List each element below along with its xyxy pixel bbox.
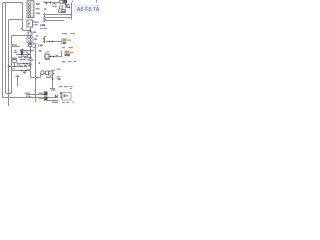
connector J1 inner contact xyxy=(28,23,30,25)
wire tick to C3 xyxy=(54,3,56,5)
resistor R1 top cluster xyxy=(60,1,63,4)
wire branch y30 xyxy=(23,30,31,32)
capacitor C1 top cluster xyxy=(66,4,70,7)
wire main vertical through components xyxy=(30,28,32,78)
wire rail y41 xyxy=(46,41,62,43)
wire row y73 xyxy=(41,73,55,75)
inductor L1 left box xyxy=(12,58,17,63)
wire bus rail y20 xyxy=(45,20,65,22)
capacitor C3 small box xyxy=(53,4,56,7)
wire y46 xyxy=(12,46,21,48)
wire vertical x35 to bottom xyxy=(35,45,37,103)
module M1 contact 1 xyxy=(64,95,66,97)
wire y50 xyxy=(20,50,34,52)
connector J2 small xyxy=(43,36,46,43)
regulator U2 body xyxy=(45,54,49,59)
wire rail y56 xyxy=(44,56,62,58)
wire bus rail y17 xyxy=(45,17,72,19)
connector J1 pin ticks xyxy=(33,22,35,26)
resistor row RN3 xyxy=(49,71,53,75)
module M1 outline bottom right xyxy=(62,93,71,101)
transistor Q1 cluster box xyxy=(23,52,28,57)
diode D1 dark body xyxy=(44,92,48,96)
capacitor C4 bars xyxy=(56,95,58,99)
resistor row RN2 xyxy=(46,71,49,75)
text blobs: labels xyxy=(12,0,97,103)
wire y54 xyxy=(16,54,29,56)
junction dots xyxy=(8,2,55,72)
wire y63 xyxy=(17,63,31,65)
wire vertical x52 xyxy=(52,75,54,89)
component X2 blue body xyxy=(65,54,71,57)
wire y70 xyxy=(12,70,31,72)
blue net label flags xyxy=(29,24,45,97)
wire ground tick x52 xyxy=(50,88,55,90)
resistor R4 on main vertical xyxy=(29,44,32,47)
junction dot cluster xyxy=(69,7,71,9)
wire pin bar comp1 xyxy=(61,38,63,45)
wire bus rail y14 xyxy=(45,14,72,16)
wire vertical from top net down xyxy=(22,3,24,31)
diode D1 anode dot xyxy=(43,93,44,95)
red junction dots xyxy=(20,53,53,80)
IC U1 body xyxy=(27,1,34,18)
wire from box B3 down xyxy=(14,63,16,67)
capacitor C2 top cluster xyxy=(60,6,63,9)
component X2 orange body xyxy=(65,51,70,54)
svg-text:A8 F8 7A: A8 F8 7A xyxy=(77,7,100,13)
wire left bus vertical V3 xyxy=(8,20,10,107)
wire left bus vertical V2 xyxy=(5,3,7,94)
wire stub x17 xyxy=(17,77,19,87)
wire tick from rail y2 xyxy=(46,3,48,5)
wire bottom ground rail xyxy=(3,97,57,99)
crosshair marker xyxy=(61,97,63,99)
component X1 orange body xyxy=(63,39,67,42)
wire cluster inner jog xyxy=(59,9,63,13)
diode D2 dark body xyxy=(44,97,48,101)
transformer T1 body xyxy=(27,37,33,43)
wire connector stub x44 xyxy=(44,13,46,23)
orange dots xyxy=(17,63,58,79)
connector J1 body xyxy=(27,20,33,27)
wire y100 bottom right xyxy=(48,100,59,102)
wire top net rail right xyxy=(44,2,61,4)
module M1 contact 2 xyxy=(66,95,68,97)
wire bottom jog xyxy=(6,93,12,95)
wire horizontal y77 xyxy=(31,77,41,79)
wire horizontal y94 xyxy=(26,94,44,96)
component X1 blue body xyxy=(63,42,66,45)
capacitor C4 blue mark xyxy=(56,96,58,98)
orange text labels xyxy=(27,0,43,99)
wire left bus vertical V4 xyxy=(11,36,13,94)
wire stub tick xyxy=(16,76,20,78)
wire vertical x71 cluster drop xyxy=(71,3,73,20)
wire vertical x40 xyxy=(40,74,42,78)
blue marks scattered xyxy=(21,49,61,80)
resistor row RN1 xyxy=(41,71,44,75)
wire pin bar comp2 xyxy=(61,51,63,58)
selection highlight top right xyxy=(74,5,100,13)
wire left bus vertical V1 xyxy=(2,3,4,98)
diode D2 anode dot xyxy=(43,98,44,100)
component F1 (fuse) body xyxy=(28,32,32,36)
connector pin bottom xyxy=(60,94,62,99)
wire y57 xyxy=(24,57,32,59)
component X3 orange mark xyxy=(15,50,17,52)
wire y66 xyxy=(9,66,28,68)
IC U1 internal switch squares xyxy=(29,3,31,17)
wire branch y19 xyxy=(9,19,23,21)
component X3 blue mark xyxy=(15,51,17,53)
transformer T1 inner marks xyxy=(28,38,32,39)
IC U1 switch ticks xyxy=(31,4,35,16)
resistor R2 top cluster xyxy=(64,0,67,3)
resistor R3 top cluster xyxy=(62,10,66,13)
wire top-left horizontal net xyxy=(3,2,23,4)
transistor Q2 dark body xyxy=(21,49,24,55)
wire branch y35 xyxy=(12,35,30,37)
